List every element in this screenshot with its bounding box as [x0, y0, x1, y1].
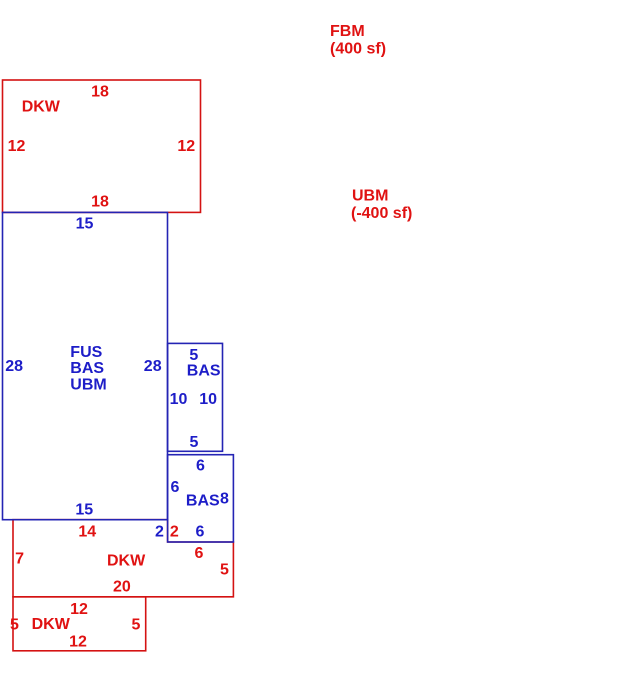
svg-text:DKW: DKW — [32, 616, 71, 633]
area DKW (top deck) outline — [3, 80, 201, 212]
svg-text:2: 2 — [170, 524, 179, 541]
svg-text:7: 7 — [15, 551, 24, 568]
svg-text:15: 15 — [75, 501, 93, 518]
svg-text:BAS: BAS — [186, 493, 220, 510]
svg-text:BAS: BAS — [187, 363, 221, 380]
area BAS upper outline — [168, 343, 223, 451]
area BAS lower outline — [168, 455, 234, 542]
svg-text:12: 12 — [177, 138, 195, 155]
svg-text:5: 5 — [189, 434, 198, 451]
svg-text:12: 12 — [8, 138, 26, 155]
svg-text:(-400 sf): (-400 sf) — [351, 205, 412, 222]
svg-text:5: 5 — [189, 347, 198, 364]
svg-text:UBM: UBM — [70, 377, 106, 394]
area DKW (lower deck) outline polygon — [13, 520, 233, 597]
svg-text:15: 15 — [76, 216, 94, 233]
svg-text:FBM: FBM — [330, 23, 365, 40]
svg-text:20: 20 — [113, 578, 131, 595]
svg-text:BAS: BAS — [70, 360, 104, 377]
svg-text:18: 18 — [91, 194, 109, 211]
svg-text:28: 28 — [5, 358, 23, 375]
svg-text:DKW: DKW — [22, 98, 61, 115]
svg-text:(400 sf): (400 sf) — [330, 40, 386, 57]
area DKW (bottom small deck) outline — [13, 597, 146, 651]
svg-text:14: 14 — [78, 524, 96, 541]
svg-text:6: 6 — [196, 457, 205, 474]
svg-text:6: 6 — [195, 545, 204, 562]
svg-text:FUS: FUS — [70, 344, 102, 361]
svg-text:2: 2 — [155, 524, 164, 541]
svg-text:12: 12 — [70, 601, 88, 618]
svg-text:6: 6 — [171, 479, 180, 496]
svg-text:5: 5 — [132, 617, 141, 634]
svg-text:8: 8 — [220, 491, 229, 508]
svg-text:10: 10 — [170, 391, 188, 408]
svg-text:DKW: DKW — [107, 553, 146, 570]
svg-text:28: 28 — [144, 358, 162, 375]
svg-text:5: 5 — [10, 617, 19, 634]
svg-text:10: 10 — [199, 391, 217, 408]
svg-text:UBM: UBM — [352, 187, 388, 204]
svg-text:18: 18 — [91, 83, 109, 100]
svg-text:6: 6 — [196, 524, 205, 541]
svg-text:12: 12 — [69, 634, 87, 651]
svg-text:5: 5 — [220, 562, 229, 579]
area FUS/BAS/UBM main outline — [3, 212, 168, 519]
